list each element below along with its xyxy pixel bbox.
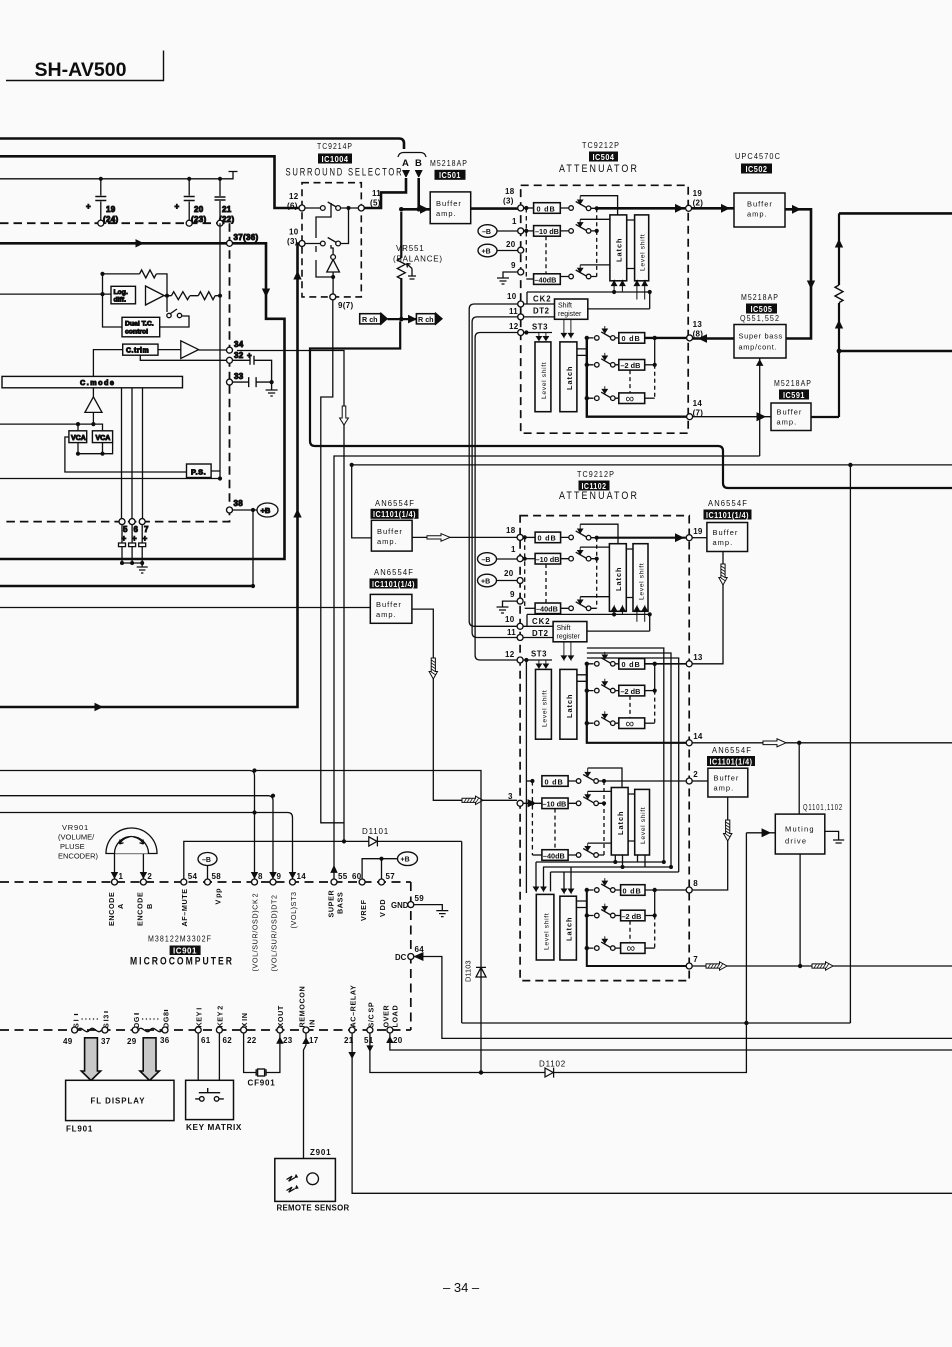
pin 10(3) xyxy=(299,241,305,247)
svg-text:Q551,552: Q551,552 xyxy=(740,314,780,323)
connector R ch right xyxy=(416,314,435,324)
dashed tie -10 to -40 ch2 xyxy=(554,809,556,850)
wires KEY1/KEY2 to key matrix xyxy=(198,1033,219,1080)
svg-text:(23): (23) xyxy=(191,215,206,224)
pin 23 XOUT xyxy=(277,1027,283,1033)
squiggle S1..S13 xyxy=(78,1028,102,1031)
wire C.mode to dashed via x220 xyxy=(211,223,220,478)
svg-text:12: 12 xyxy=(289,192,299,201)
svg-text:Muting: Muting xyxy=(785,825,815,834)
block Level shift upper xyxy=(635,215,649,281)
wire buffer1 output to att2 pin 18 xyxy=(412,536,517,538)
ground at pin 33 xyxy=(266,382,278,396)
shift register output wire xyxy=(588,308,650,310)
pin 58 Vpp with -B xyxy=(205,879,211,885)
shift register output wire xyxy=(587,630,650,632)
svg-text:M38122M3302F: M38122M3302F xyxy=(148,935,212,944)
svg-text:Latch: Latch xyxy=(565,694,574,718)
bottom bus lines ch2 xyxy=(615,855,645,867)
svg-text:0 dB: 0 dB xyxy=(622,334,641,343)
block infinity mid xyxy=(619,718,645,729)
svg-text:+B: +B xyxy=(401,857,410,864)
svg-text:amp/cont.: amp/cont. xyxy=(739,343,778,352)
svg-text:ST3: ST3 xyxy=(531,650,547,659)
block Level shift lower xyxy=(535,342,551,412)
pin 9(7) xyxy=(330,294,336,300)
pin 13 xyxy=(686,661,692,667)
block buffer amp AN6554F upper xyxy=(371,520,412,551)
svg-text:10: 10 xyxy=(289,228,299,237)
open arrow buffer1 out xyxy=(427,534,450,542)
svg-text:12: 12 xyxy=(509,322,519,331)
svg-text:M5218AP: M5218AP xyxy=(741,293,779,302)
capacitor C21 wire xyxy=(219,179,221,220)
block -40 dB xyxy=(535,603,561,614)
svg-text:+B: +B xyxy=(482,248,491,255)
block 0 dB mid xyxy=(619,659,645,670)
svg-text:BASS: BASS xyxy=(336,892,345,914)
svg-text:14: 14 xyxy=(693,732,703,741)
capacitor C6 xyxy=(129,525,136,563)
risers latch bottom xyxy=(612,606,626,616)
pin 8 xyxy=(252,879,258,885)
svg-text:X IN: X IN xyxy=(240,1013,249,1028)
svg-text:KEY 2: KEY 2 xyxy=(216,1005,225,1027)
pin 37 S13 xyxy=(102,1027,108,1033)
svg-text:Latch: Latch xyxy=(614,567,623,591)
hatched arrow pin7 b xyxy=(812,962,833,970)
block KEY MATRIX xyxy=(186,1080,234,1119)
svg-text:AF–MUTE: AF–MUTE xyxy=(180,888,189,926)
svg-text:21: 21 xyxy=(222,205,232,214)
svg-text:IC505: IC505 xyxy=(751,304,773,314)
svg-text:(6): (6) xyxy=(287,202,298,211)
connector R ch left xyxy=(360,314,381,324)
wire pin 38 to +B xyxy=(233,510,261,586)
switch row -40dB xyxy=(561,602,597,609)
loop wire row1 to latch xyxy=(580,524,618,544)
op-amp triangle A2 xyxy=(181,341,199,359)
switch row inf mid xyxy=(587,717,619,723)
svg-text:61: 61 xyxy=(201,1036,211,1045)
dashed tie -10 to -40 xyxy=(545,564,547,603)
links latch to level shift xyxy=(627,220,635,269)
svg-text:(2): (2) xyxy=(693,199,704,208)
svg-text:–10 dB: –10 dB xyxy=(542,800,566,809)
pin 8 xyxy=(686,887,692,893)
switch row inf ch2 lower xyxy=(587,942,621,948)
block buffer amp IC501 xyxy=(430,192,471,224)
svg-text:Buffer: Buffer xyxy=(436,199,462,208)
hatched arrow pin7 a xyxy=(706,962,727,970)
svg-text:M5218AP: M5218AP xyxy=(774,379,812,388)
arrow down on bus A vertical xyxy=(263,288,270,296)
svg-text:KEY I: KEY I xyxy=(195,1007,204,1027)
wire A to pin 11(5) xyxy=(364,178,406,208)
control drop lines to lower sections xyxy=(587,648,679,872)
svg-text:A: A xyxy=(402,158,409,169)
pin 11(5) xyxy=(358,205,364,211)
wire pin 7 row to right edge xyxy=(692,965,952,967)
wire C.trim input xyxy=(93,350,122,377)
svg-text:(VOL/SUR/OSD)CK 2: (VOL/SUR/OSD)CK 2 xyxy=(251,893,260,972)
block Latch mid xyxy=(560,669,577,739)
control bus line y292 xyxy=(527,292,650,309)
connector B arrow down xyxy=(416,171,422,178)
pin 55 xyxy=(331,879,337,885)
svg-text:VCA: VCA xyxy=(71,435,86,442)
wire ST3 line att1 to att2 xyxy=(475,333,518,661)
svg-text:23: 23 xyxy=(283,1036,293,1045)
switch row inf xyxy=(587,392,619,398)
op-amp triangle A1 xyxy=(146,286,165,305)
svg-text:amp.: amp. xyxy=(377,537,398,546)
wire lower left input xyxy=(0,478,220,480)
pin 36 DG8 xyxy=(162,1027,168,1033)
block Latch ch2 lower xyxy=(560,896,577,960)
svg-text:19: 19 xyxy=(106,205,116,214)
svg-text:amp.: amp. xyxy=(747,210,768,219)
encoder VR901 xyxy=(106,828,157,854)
wire pin 14 riser to left bus xyxy=(0,813,293,880)
pin 9 with ground xyxy=(517,598,523,604)
svg-text:IC504: IC504 xyxy=(593,152,615,162)
svg-text:ENCODE: ENCODE xyxy=(136,892,145,926)
ground symbol xyxy=(137,563,148,573)
svg-text:36: 36 xyxy=(160,1036,170,1045)
svg-text:20: 20 xyxy=(194,205,204,214)
wire top thin line to caps 19/20/21 xyxy=(0,172,238,179)
input chain dashed left xyxy=(524,206,528,210)
wire pin 21 AC-RELAY down to row E xyxy=(352,1033,952,1193)
chip ref IC1101 (1/4) xyxy=(707,756,755,766)
wire pin 14 to IC591 xyxy=(693,416,771,418)
svg-text:TC9212P: TC9212P xyxy=(582,141,620,150)
svg-text:drive: drive xyxy=(785,837,807,846)
resistor R-a xyxy=(171,292,189,300)
svg-text:Buffer: Buffer xyxy=(777,408,803,417)
pin 9 xyxy=(270,879,276,885)
svg-text:29: 29 xyxy=(127,1037,137,1046)
pin 18 xyxy=(517,534,523,540)
SECTION: microcomputer xyxy=(0,768,952,1046)
pin 61 KEY1 xyxy=(195,1027,201,1033)
svg-text:Latch: Latch xyxy=(565,366,574,390)
pin 3 xyxy=(517,800,523,806)
svg-text:54: 54 xyxy=(188,872,198,881)
wire thick bus path B to pin 10(3) xyxy=(0,244,300,708)
svg-text:VR551: VR551 xyxy=(396,244,424,253)
switch row 0dB lower xyxy=(587,332,619,338)
svg-text:33: 33 xyxy=(234,372,244,381)
wire after amp with two resistors xyxy=(164,295,220,297)
svg-text:M5218AP: M5218AP xyxy=(430,159,468,168)
svg-text:57: 57 xyxy=(386,872,396,881)
svg-text:S I: S I xyxy=(72,1019,81,1028)
latch control links xyxy=(577,349,587,356)
block buffer amp IC591 xyxy=(771,403,811,431)
svg-text:IC1101(1/4): IC1101(1/4) xyxy=(710,756,753,766)
pin 9 with ground xyxy=(518,269,524,275)
dashed tie -2dB to inf ch2 lower xyxy=(629,921,631,943)
block Latch lower xyxy=(560,342,577,412)
svg-text:IC1101(1/4): IC1101(1/4) xyxy=(372,579,415,589)
svg-text:11: 11 xyxy=(509,307,518,316)
svg-text:Level shift: Level shift xyxy=(639,563,646,600)
svg-text:(VOL)ST3: (VOL)ST3 xyxy=(289,891,298,928)
chip ref IC1102 xyxy=(579,481,610,491)
switch SW1 select wire xyxy=(316,203,331,238)
dashed tie -2dB to inf mid xyxy=(629,696,631,718)
capacitor C19 wire xyxy=(100,179,102,220)
pin 7 xyxy=(686,963,692,969)
node pin 32 xyxy=(227,357,233,363)
wire pin 20 down to row C xyxy=(390,1033,952,1050)
svg-text:(BALANCE): (BALANCE) xyxy=(393,255,443,264)
svg-text:Buffer: Buffer xyxy=(713,528,739,537)
svg-text:C.trim: C.trim xyxy=(126,348,149,355)
block shift register xyxy=(555,299,588,319)
pin 21 AC-RELAY xyxy=(349,1027,355,1033)
arrow up on bus B vertical xyxy=(294,510,301,518)
svg-text:–B: –B xyxy=(482,557,491,564)
SECTION: title xyxy=(6,51,164,82)
supply +B bubble MCU xyxy=(398,852,418,866)
svg-text:VREF: VREF xyxy=(359,899,368,921)
svg-text:Level shift: Level shift xyxy=(544,913,551,950)
inverter wires xyxy=(331,245,333,294)
block infinity ch2 lower xyxy=(621,943,645,954)
svg-text:1: 1 xyxy=(511,545,516,554)
wire DC to right row B xyxy=(414,957,952,1039)
svg-text:GND: GND xyxy=(391,901,409,910)
wire CK2 line att1 to att2 xyxy=(469,304,518,626)
hatched display bus arrow 2 xyxy=(140,1038,159,1081)
wire to pin 2 xyxy=(604,780,686,782)
wire pin 9(7) long riser down xyxy=(321,300,344,823)
svg-text:DT2: DT2 xyxy=(532,629,549,638)
wire D1101 down to bottom row A xyxy=(462,841,851,1023)
svg-text:Q1101,1102: Q1101,1102 xyxy=(803,803,843,812)
wire thick mid right xyxy=(839,350,952,353)
pin 19(2) xyxy=(686,205,692,211)
IC1004 dashed box xyxy=(302,183,361,297)
wire muting input riser down to D1101 row xyxy=(745,833,747,1023)
svg-text:TC9214P: TC9214P xyxy=(317,142,353,151)
svg-text:ATTENUATOR: ATTENUATOR xyxy=(559,490,639,502)
wire thick top right xyxy=(839,212,952,215)
svg-text:20: 20 xyxy=(504,569,514,578)
svg-text:17: 17 xyxy=(309,1036,319,1045)
svg-text:9: 9 xyxy=(277,872,282,881)
svg-text:49: 49 xyxy=(63,1037,73,1046)
hatched arrow right to pin 3 xyxy=(462,796,483,804)
svg-text:Super bass: Super bass xyxy=(739,332,783,341)
svg-text:D1101: D1101 xyxy=(362,827,389,836)
svg-text:S I3: S I3 xyxy=(102,1014,111,1028)
shift register bottom risers into latch xyxy=(561,319,573,337)
svg-text:62: 62 xyxy=(223,1036,233,1045)
switch row -2dB xyxy=(587,359,619,365)
select arrow row2 xyxy=(578,219,583,226)
svg-text:control: control xyxy=(125,329,148,336)
block Latch upper xyxy=(610,215,627,281)
block -2 dB xyxy=(619,360,645,371)
block -2 dB ch2 lower xyxy=(621,910,645,921)
svg-text:R ch: R ch xyxy=(418,315,434,324)
svg-text:12: 12 xyxy=(505,650,515,659)
svg-text:REMOCON: REMOCON xyxy=(297,986,306,1028)
risers to section 4 xyxy=(536,862,571,893)
svg-text:CK2: CK2 xyxy=(532,617,551,626)
svg-text:–10 dB: –10 dB xyxy=(535,227,559,236)
open arrow pin14 xyxy=(763,739,786,747)
wire pin 19 to buffer xyxy=(692,537,707,539)
svg-text:IC591: IC591 xyxy=(783,390,805,400)
svg-text:2: 2 xyxy=(693,770,698,779)
svg-text:32: 32 xyxy=(234,351,244,360)
block remote sensor Z901 xyxy=(275,1159,336,1202)
MCU dashed outline bottom xyxy=(0,1029,411,1031)
svg-text:6: 6 xyxy=(134,525,139,534)
arrow up on bus B vertical near top xyxy=(294,272,301,280)
svg-text:AN6554F: AN6554F xyxy=(712,746,752,755)
select tie vertical right xyxy=(654,338,656,365)
switch row -40dB xyxy=(560,270,596,277)
node pin 5 xyxy=(119,519,125,525)
pin 1 xyxy=(112,879,118,885)
MCU dashed outline top xyxy=(0,881,411,883)
wire buffer19 down to pin 13 line xyxy=(692,552,723,664)
MCU dashed outline right xyxy=(410,882,412,1030)
switch row 0dB xyxy=(561,531,597,538)
ST3 wire with arrows into level shift xyxy=(524,332,552,334)
hollow arrow down on control line xyxy=(340,406,349,425)
svg-text:–40dB: –40dB xyxy=(535,275,557,284)
svg-text:10: 10 xyxy=(505,615,515,624)
svg-text:VR901: VR901 xyxy=(62,823,89,832)
SECTION: bottom parts xyxy=(66,843,952,1213)
svg-text:C.mode: C.mode xyxy=(80,378,115,387)
switch row 0dB ch2 lower xyxy=(587,884,621,890)
wire pin 8 riser to left bus xyxy=(0,771,255,880)
svg-text:0 dB: 0 dB xyxy=(545,777,564,786)
svg-text:Log.: Log. xyxy=(114,289,128,296)
thick select bus vertical xyxy=(587,338,690,417)
block Level shift ch2 xyxy=(635,789,650,855)
svg-text:V pp: V pp xyxy=(214,888,223,905)
wire pin 9 riser to left bus xyxy=(0,796,273,879)
pin 2 xyxy=(140,879,146,885)
block Level shift ch2 lower xyxy=(536,894,554,960)
svg-text:SH-AV500: SH-AV500 xyxy=(35,59,127,81)
svg-text:SURROUND SELECTOR: SURROUND SELECTOR xyxy=(286,167,404,179)
switch row -2dB ch2 lower xyxy=(587,910,621,916)
select arrow row3 xyxy=(578,265,583,272)
svg-text:– 34 –: – 34 – xyxy=(443,1280,480,1295)
wire VCA bottoms xyxy=(78,443,113,454)
SECTION: attenuator 2 xyxy=(478,470,703,981)
svg-text:(VOLUME/: (VOLUME/ xyxy=(58,833,95,842)
arrow up into pin 55 riser at MCU xyxy=(331,866,337,873)
block -10 dB xyxy=(535,553,561,564)
block Level shift upper xyxy=(633,544,648,612)
svg-text:B: B xyxy=(415,158,422,169)
wire R ch xyxy=(388,318,417,320)
wire feedback with resistor xyxy=(103,274,168,296)
svg-text:7: 7 xyxy=(144,525,149,534)
chip ref IC501 xyxy=(435,170,466,180)
switch row 0dB mid xyxy=(587,658,619,664)
links latch level shift ch2 xyxy=(628,794,635,841)
svg-text:5: 5 xyxy=(123,525,128,534)
pin 18(3) xyxy=(518,205,524,211)
block -10 dB ch2 xyxy=(542,798,568,809)
links latch to level shift xyxy=(626,549,633,598)
pin 54 xyxy=(181,879,187,885)
svg-text:34: 34 xyxy=(234,340,244,349)
SECTION: surround selector xyxy=(286,142,471,873)
svg-text:OVER: OVER xyxy=(382,1005,391,1028)
svg-text:37(36): 37(36) xyxy=(234,233,259,242)
wire VCA to P.S. xyxy=(65,437,187,472)
svg-text:SUPER: SUPER xyxy=(327,890,336,918)
wire C.trim to amp to pin 34 xyxy=(158,349,227,351)
block -10 dB xyxy=(534,226,561,237)
pin 22 XIN xyxy=(241,1027,247,1033)
capacitor C20 xyxy=(184,197,195,201)
svg-text:(VOL/SUR/OSD)DT2: (VOL/SUR/OSD)DT2 xyxy=(270,894,279,971)
svg-text:AN6554F: AN6554F xyxy=(374,568,414,577)
latch control links ch2 lower xyxy=(576,901,586,908)
arrow right on bus B xyxy=(90,704,102,711)
pin 57 VDD xyxy=(379,879,385,885)
svg-text:register: register xyxy=(557,634,581,641)
potentiometer VR551 xyxy=(397,258,405,279)
long right vertical bus xyxy=(849,465,851,1023)
svg-text:DG8: DG8 xyxy=(162,1011,171,1028)
pin 12 ST3 xyxy=(517,657,523,663)
wire buffer2 down to pin 8 xyxy=(692,797,728,890)
svg-text:A: A xyxy=(116,903,125,909)
pin 20 OVER LOAD xyxy=(387,1027,393,1033)
pin 11 DT2 xyxy=(518,314,524,320)
wire pin 19 to IC502 xyxy=(692,207,734,210)
svg-text:ENCODER): ENCODER) xyxy=(58,852,99,861)
svg-text:DT2: DT2 xyxy=(533,307,550,316)
arrow on bus A xyxy=(131,240,143,247)
svg-text:1: 1 xyxy=(512,217,517,226)
loop wire row3 to latch xyxy=(580,264,610,266)
block buffer amp IC502 xyxy=(734,193,785,227)
svg-text:51: 51 xyxy=(364,1036,374,1045)
vertical bus with resistor right xyxy=(838,213,840,417)
IC dashed box left (partial, off page) xyxy=(0,223,230,521)
svg-text:58: 58 xyxy=(212,872,222,881)
IC1102 dashed box xyxy=(520,516,689,981)
switch SW2 xyxy=(305,208,349,244)
op-amp triangle up xyxy=(85,388,102,412)
svg-text:9(7): 9(7) xyxy=(338,301,353,310)
svg-text:55: 55 xyxy=(338,872,348,881)
svg-text:0 dB: 0 dB xyxy=(537,204,556,213)
hatched display bus arrow 1 xyxy=(81,1038,100,1081)
wire bus T1 to connector A xyxy=(0,139,404,150)
block infinity xyxy=(619,393,645,404)
block C.trim xyxy=(123,344,158,355)
svg-text:AN6554F: AN6554F xyxy=(375,499,415,508)
chip ref IC504 xyxy=(589,152,618,162)
